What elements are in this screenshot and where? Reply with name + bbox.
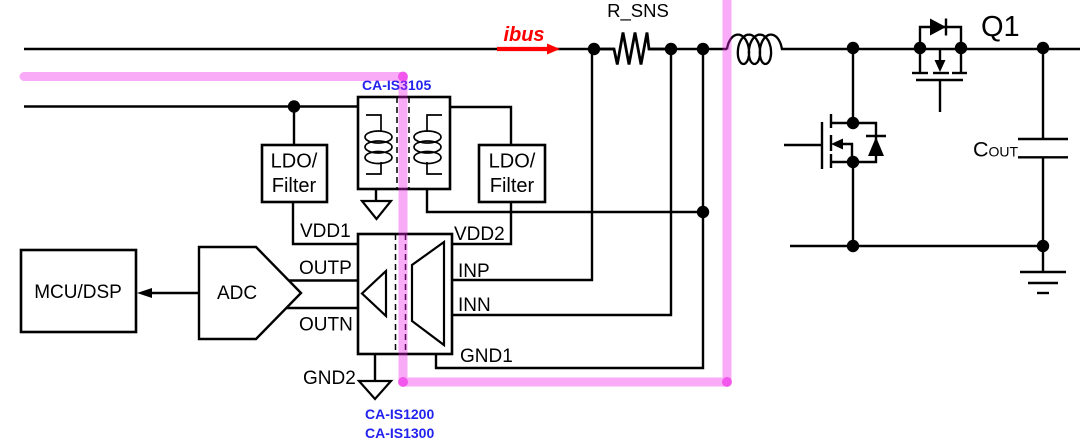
transistor Q2 (low side): [784, 49, 876, 246]
Q2 body arrow head: [831, 139, 843, 150]
amp output triangle: [362, 271, 386, 316]
ground GND2 symbol: [359, 381, 391, 399]
ground GND (output): [1020, 246, 1066, 293]
svg-text:LDO/: LDO/: [489, 151, 536, 173]
Q2 drain lead: [831, 122, 853, 124]
Q2 source lead: [831, 161, 853, 163]
MCU/DSP box: [21, 250, 136, 332]
wire top bus right of inductor: [781, 48, 1080, 50]
Q2 source down to bottom rail: [852, 162, 854, 246]
node dot bottom rail Q2: [847, 240, 859, 252]
transformer U2 box (CA-IS3105): [358, 97, 450, 189]
wire GND2 stub: [374, 354, 376, 381]
wire LDO1 drop: [293, 107, 295, 146]
svg-text:Filter: Filter: [272, 175, 317, 197]
node dot bottom rail COUT: [1037, 240, 1049, 252]
node dot bus right of R_SNS: [665, 43, 677, 55]
LDO/Filter box right: [479, 145, 545, 202]
svg-text:Filter: Filter: [490, 175, 535, 197]
node dot bus above Q2: [847, 42, 859, 54]
isolation barrier highlight (pink): [24, 0, 727, 382]
node dot Q2 source: [847, 156, 859, 168]
svg-text:VDD2: VDD2: [454, 224, 505, 245]
wire bottom rail: [790, 245, 1043, 247]
current arrow ibus: [497, 47, 548, 51]
resistor R_SNS: [594, 33, 671, 65]
svg-text:OUTN: OUTN: [299, 315, 353, 336]
wire INP: [452, 49, 592, 280]
wire OUTN: [286, 307, 358, 309]
wire VDD1: [293, 202, 358, 244]
node dot Q2 drain: [847, 117, 859, 129]
wire transformer to LDO2: [450, 107, 511, 145]
node dot bus COUT: [1037, 42, 1049, 54]
svg-text:CA-IS1200: CA-IS1200: [365, 406, 434, 422]
wire ADC to MCU arrow line: [151, 292, 199, 294]
wire VDD2 rail: [427, 189, 703, 212]
Q1 gate lead: [939, 80, 941, 112]
svg-text:GND2: GND2: [303, 368, 356, 389]
Q2 drain drop from bus: [852, 49, 854, 123]
transformer primary coil: [365, 115, 392, 174]
Q1 body arrow stem: [939, 49, 941, 62]
node dot bus third tap: [697, 43, 709, 55]
svg-text:GND1: GND1: [460, 346, 513, 367]
amp input trapezoid: [412, 242, 444, 345]
wire bus tap to GND1: [436, 49, 703, 368]
barrier corner joints: [398, 72, 408, 82]
node dot Q1 right: [955, 42, 967, 54]
Q2 channel segments: [830, 114, 832, 128]
wire top bus: [24, 48, 614, 50]
Q2 body diode branch: [853, 123, 876, 162]
transformer isolation dashed lines: [397, 97, 409, 189]
amplifier U1 box (CA-IS1200/1300): [358, 234, 452, 354]
svg-text:R_SNS: R_SNS: [607, 0, 669, 22]
Q1 diode bar: [945, 19, 947, 36]
svg-text:ibus: ibus: [503, 24, 544, 46]
arrowhead ADC to MCU: [137, 288, 152, 298]
wire second bus: [24, 105, 358, 107]
Q1 right leg: [960, 49, 962, 73]
wire OUTP: [288, 279, 358, 281]
node dot second bus / LDO1: [288, 100, 300, 112]
svg-text:INN: INN: [458, 295, 491, 316]
node dot Q1 left: [914, 42, 926, 54]
wire LDO2 to VDD2 pin: [452, 202, 511, 244]
Q2 body arrow line: [840, 144, 852, 162]
node dot bus left of R_SNS: [588, 43, 600, 55]
LDO/Filter box left: [262, 145, 327, 202]
svg-text:VDD1: VDD1: [300, 221, 351, 242]
transistor Q1 wires: [912, 27, 967, 112]
Q1 gate plate: [916, 79, 963, 81]
transformer secondary coil: [414, 115, 442, 174]
Q1 body diode branch: [920, 27, 961, 48]
amp isolation dashed lines: [396, 234, 406, 354]
Q1 channel segments: [912, 72, 928, 74]
wire transformer gnd stub: [375, 189, 377, 201]
ADC pentagon: [199, 247, 301, 339]
wire INN: [452, 49, 671, 315]
Q2 gate bar: [821, 122, 823, 169]
svg-text:MCU/DSP: MCU/DSP: [34, 282, 122, 303]
inductor L1: [727, 35, 782, 64]
Q2 diode bar: [866, 135, 886, 137]
Q1 left leg: [919, 49, 921, 73]
capacitor COUT: [1018, 49, 1068, 246]
svg-text:CA-IS1300: CA-IS1300: [365, 425, 434, 441]
svg-text:ADC: ADC: [217, 283, 257, 304]
Q1 diode triangle: [930, 19, 946, 36]
Q1 body arrow head: [935, 60, 946, 72]
svg-text:INP: INP: [458, 261, 490, 282]
svg-text:LDO/: LDO/: [271, 151, 318, 173]
node dot VDD2 rail: [697, 206, 709, 218]
svg-text:OUTP: OUTP: [299, 258, 352, 279]
Q2 diode triangle: [868, 137, 884, 156]
ground GND (transformer): [362, 201, 391, 219]
Q2 gate lead: [784, 144, 822, 146]
svg-text:Q1: Q1: [981, 11, 1020, 43]
